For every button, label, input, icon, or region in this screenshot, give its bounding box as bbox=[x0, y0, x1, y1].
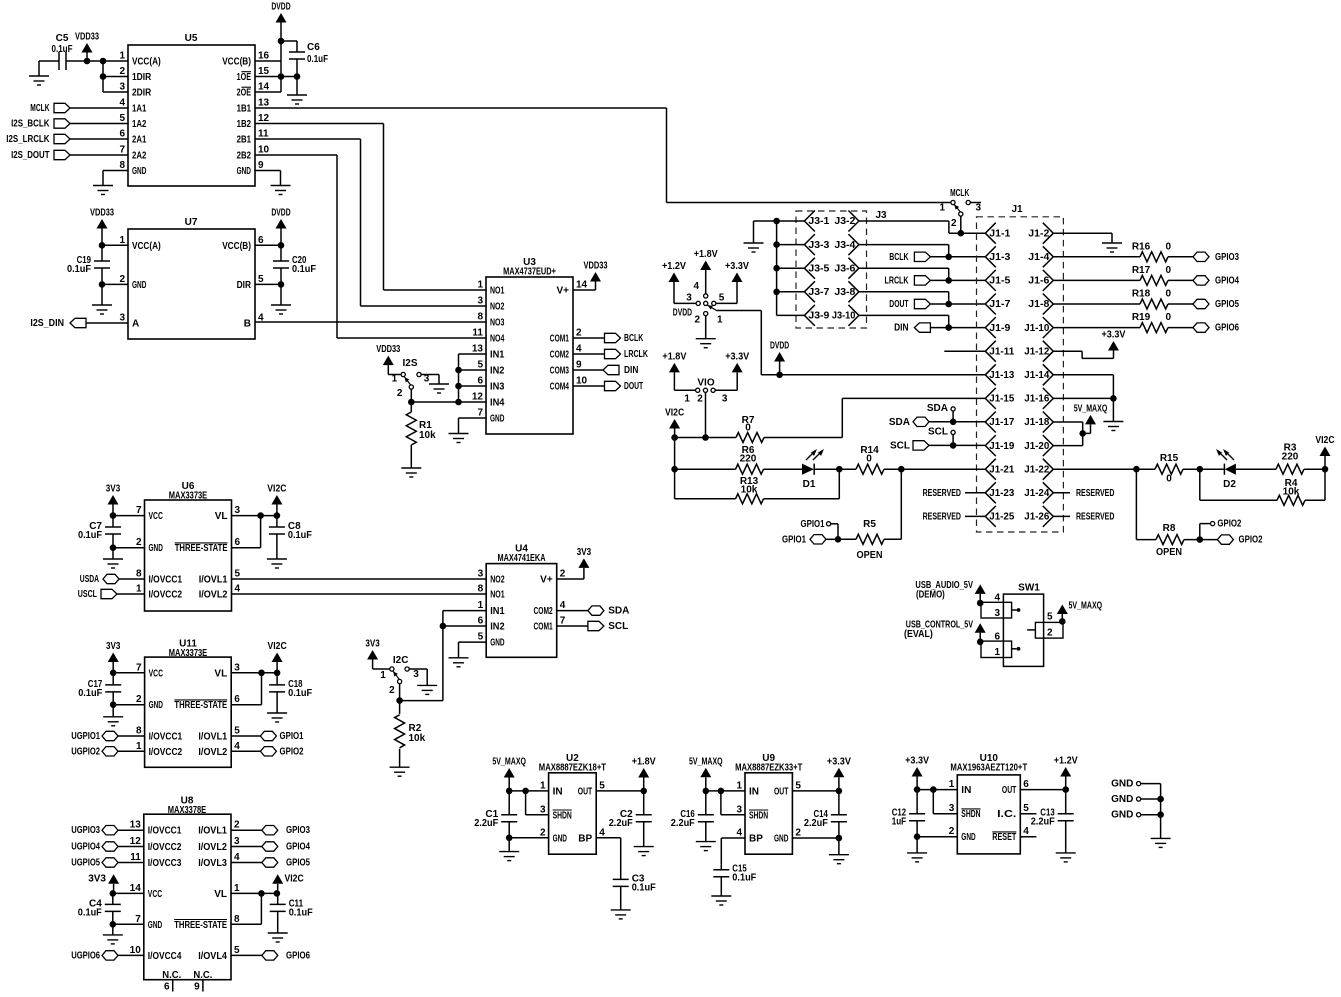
wire U8 VCC bbox=[113, 892, 144, 894]
svg-text:SHDN: SHDN bbox=[553, 810, 572, 821]
wire I2C pin3 stub bbox=[409, 669, 427, 685]
svg-text:10k: 10k bbox=[409, 733, 426, 744]
switch I2C lever bbox=[393, 671, 399, 679]
switch VIO pin3 bbox=[711, 388, 728, 404]
svg-text:J1-10: J1-10 bbox=[1024, 323, 1049, 334]
svg-text:3: 3 bbox=[119, 313, 125, 324]
node dot IN4 bbox=[455, 399, 462, 406]
svg-text:+1.8V: +1.8V bbox=[694, 249, 718, 260]
wire DVDD to J1-13 bbox=[780, 374, 986, 376]
flag UGPIO2 bidirectional bbox=[71, 746, 144, 757]
svg-text:J1-6: J1-6 bbox=[1028, 276, 1049, 287]
svg-text:NO2: NO2 bbox=[490, 575, 505, 586]
resistor R13 10k bbox=[736, 476, 764, 504]
node dot VI2C right bbox=[1322, 466, 1329, 473]
node dot U6 VI2C bbox=[274, 512, 281, 519]
node dot SDA bbox=[950, 419, 957, 426]
svg-text:4: 4 bbox=[234, 741, 240, 752]
flag BCLK output bbox=[889, 252, 930, 263]
svg-text:BCLK: BCLK bbox=[624, 333, 644, 344]
svg-text:I2S: I2S bbox=[402, 358, 417, 369]
svg-text:10: 10 bbox=[576, 376, 588, 387]
wire node to 5V_MAXQ arrow bbox=[1083, 432, 1091, 434]
svg-text:13: 13 bbox=[472, 344, 484, 355]
svg-text:NO1: NO1 bbox=[490, 590, 505, 601]
node dot U8 VI2C bbox=[274, 890, 281, 897]
wire U9 IN bbox=[706, 790, 745, 792]
ground at C20 bbox=[271, 305, 291, 314]
svg-text:VDD33: VDD33 bbox=[376, 344, 400, 355]
svg-text:VI2C: VI2C bbox=[268, 641, 287, 652]
power DVDD at J1-13 wire bbox=[770, 341, 789, 375]
svg-text:4: 4 bbox=[560, 600, 566, 611]
svg-text:3V3: 3V3 bbox=[88, 874, 106, 885]
switch I2C label bbox=[393, 655, 409, 666]
power +3.3V at J1-12 bbox=[1102, 330, 1126, 359]
node dot U9 GND/C14 bbox=[836, 835, 843, 842]
svg-text:RESERVED: RESERVED bbox=[923, 488, 961, 499]
svg-text:1: 1 bbox=[119, 51, 125, 62]
power VDD33 at U3 V+ bbox=[584, 261, 608, 291]
wire U3 COM2 to LRCLK bbox=[573, 353, 605, 355]
svg-text:VCC: VCC bbox=[148, 889, 162, 900]
svg-text:3: 3 bbox=[976, 203, 982, 214]
capacitor C4 0.1uF bbox=[78, 893, 121, 935]
wire D2 to R3 bbox=[1236, 468, 1276, 470]
ground at C17 bbox=[103, 717, 123, 726]
svg-text:GPIO2: GPIO2 bbox=[1239, 535, 1263, 546]
svg-text:SHDN: SHDN bbox=[961, 809, 980, 820]
switch I2S pin2 bbox=[397, 385, 413, 399]
svg-text:U5: U5 bbox=[185, 33, 198, 44]
flag SDA bidirectional bbox=[889, 417, 929, 428]
power 3V3 at I2C switch bbox=[365, 639, 380, 670]
wire D1 to R14 bbox=[814, 468, 856, 470]
wire U3 GND pin7 bbox=[459, 418, 487, 434]
svg-text:11: 11 bbox=[472, 328, 483, 339]
wire U6 I/OVL1 to U4 NO2 bbox=[232, 578, 487, 580]
svg-text:6: 6 bbox=[477, 376, 483, 387]
svg-text:I/OVCC2: I/OVCC2 bbox=[149, 590, 183, 601]
svg-text:USCL: USCL bbox=[78, 589, 97, 600]
svg-text:5V_MAXQ: 5V_MAXQ bbox=[1069, 601, 1103, 612]
svg-text:GPIO6: GPIO6 bbox=[286, 950, 310, 961]
node dot U7 pin2 GND bbox=[99, 281, 106, 288]
svg-text:GND: GND bbox=[237, 166, 251, 177]
resistor R7 0 bbox=[736, 415, 764, 443]
node dot DVDD/C6 bbox=[278, 38, 285, 45]
svg-text:MAX8887EZK33+T: MAX8887EZK33+T bbox=[735, 763, 802, 774]
connector pin J1-13 bbox=[985, 364, 1014, 385]
power 5V_MAXQ at SW1 bbox=[1057, 601, 1102, 622]
wire U9 OUT bbox=[792, 790, 839, 792]
wire U10 OUT bbox=[1020, 789, 1065, 791]
node dot U2 GND/C1 bbox=[506, 835, 513, 842]
svg-text:J1: J1 bbox=[1011, 204, 1023, 215]
ground at C18 bbox=[267, 713, 287, 722]
ground at C13 bbox=[1056, 853, 1076, 862]
node dot U2 IN a bbox=[506, 788, 513, 795]
node dot SW1 control bbox=[977, 639, 984, 646]
svg-text:MAX8887EZK18+T: MAX8887EZK18+T bbox=[539, 763, 606, 774]
svg-text:IN: IN bbox=[749, 786, 759, 797]
wire R13 row bbox=[675, 498, 736, 500]
svg-text:J1-18: J1-18 bbox=[1024, 417, 1049, 428]
wire R4 branch bbox=[1200, 469, 1277, 500]
wire VIO pin2 down to R7 node bbox=[705, 392, 707, 437]
svg-text:2: 2 bbox=[951, 218, 957, 229]
wire U10 RESET stub bbox=[1020, 836, 1036, 838]
switch I2C pin2 bbox=[389, 679, 402, 696]
switch MCLK pin1 bbox=[939, 200, 955, 213]
svg-text:3V3: 3V3 bbox=[106, 641, 121, 652]
node dot VI2C/R6 bbox=[671, 466, 678, 473]
wire I2C pin2 to R2 bbox=[399, 684, 401, 701]
wire I2S_DOUT to U5 pin7 2A2 bbox=[70, 154, 128, 156]
wire GPIO1 hexagon bbox=[826, 538, 838, 540]
flag DOUT output bbox=[889, 299, 930, 310]
svg-text:9: 9 bbox=[576, 360, 582, 371]
node dot GND header 2 bbox=[1157, 796, 1164, 803]
svg-text:UGPIO1: UGPIO1 bbox=[71, 731, 100, 742]
connector pin J1-6 bbox=[1028, 270, 1053, 291]
svg-text:4: 4 bbox=[599, 827, 605, 838]
svg-text:SW1: SW1 bbox=[1018, 583, 1040, 594]
svg-text:GND: GND bbox=[1111, 794, 1133, 805]
connector pin J3-4 bbox=[834, 234, 859, 255]
power 5V_MAXQ at U9 bbox=[689, 756, 723, 791]
power VI2C at R7 row bbox=[665, 408, 684, 438]
switch I2S pin1 bbox=[392, 372, 406, 384]
svg-text:2: 2 bbox=[540, 827, 546, 838]
svg-text:VCC: VCC bbox=[149, 511, 163, 522]
power 3V3 at U8 bbox=[88, 874, 119, 894]
wire U8 GND bbox=[113, 923, 144, 925]
svg-text:B: B bbox=[244, 319, 251, 330]
svg-text:DVDD: DVDD bbox=[271, 208, 290, 219]
wire J1-22 to R15 bbox=[1053, 468, 1155, 470]
svg-text:1: 1 bbox=[136, 584, 142, 595]
power USB_AUDIO_5V (DEMO) bbox=[915, 580, 985, 603]
svg-text:5: 5 bbox=[1023, 803, 1029, 814]
svg-text:IN1: IN1 bbox=[490, 350, 505, 361]
node dot VDD33/pin1 bbox=[84, 58, 91, 65]
wire U7 pin2 GND bbox=[102, 283, 128, 285]
switch MCLK pin2 bbox=[951, 212, 963, 229]
svg-text:11: 11 bbox=[130, 852, 141, 863]
svg-text:DVDD: DVDD bbox=[673, 308, 692, 319]
svg-text:0.1uF: 0.1uF bbox=[288, 688, 312, 699]
svg-text:BP: BP bbox=[749, 834, 763, 845]
svg-text:0: 0 bbox=[1166, 289, 1172, 300]
svg-text:1: 1 bbox=[136, 741, 142, 752]
node dot U6 GND bbox=[110, 544, 117, 551]
svg-text:2: 2 bbox=[697, 393, 703, 404]
svg-text:0: 0 bbox=[1166, 474, 1172, 485]
wire I2S pin3 stub to ground bbox=[421, 375, 439, 385]
wire U3 COM4 to DOUT bbox=[573, 385, 605, 387]
svg-text:I/OVCC3: I/OVCC3 bbox=[148, 858, 182, 869]
IC U10 MAX1963AEZT120+T box bbox=[950, 753, 1027, 854]
wire U5 2B2 to U3 NO4 bbox=[255, 155, 486, 338]
wire U11 VCC bbox=[113, 672, 144, 674]
SW1 section pins 6-1 bbox=[981, 632, 1020, 659]
svg-text:1uF: 1uF bbox=[892, 817, 906, 828]
svg-text:8: 8 bbox=[478, 584, 484, 595]
node dot GPIO2 bbox=[1197, 536, 1204, 543]
wire U7 pin6 bbox=[255, 244, 281, 246]
svg-text:0: 0 bbox=[1166, 312, 1172, 323]
svg-text:10k: 10k bbox=[1283, 487, 1300, 498]
node dot R15/R4 bbox=[1197, 466, 1204, 473]
svg-text:0.1uF: 0.1uF bbox=[292, 264, 316, 275]
U8 right pins bbox=[174, 820, 240, 962]
svg-text:UGPIO6: UGPIO6 bbox=[71, 950, 100, 961]
switch VIO pin1 bbox=[684, 388, 699, 404]
svg-text:VL: VL bbox=[214, 668, 227, 679]
svg-text:3: 3 bbox=[234, 836, 240, 847]
node dot U10 GND/C12 bbox=[914, 833, 921, 840]
flag GPIO1 output bbox=[231, 731, 304, 742]
svg-text:VI2C: VI2C bbox=[285, 874, 304, 885]
wire R5 node down bbox=[884, 469, 901, 539]
svg-text:D2: D2 bbox=[1223, 479, 1236, 490]
IC U6 MAX3373E box bbox=[145, 481, 232, 611]
node dot SW1 output bbox=[1059, 618, 1066, 625]
svg-text:BP: BP bbox=[578, 833, 592, 844]
wire U4 IN1 bbox=[443, 611, 486, 701]
wire +3.3V to switch pin5 bbox=[716, 302, 737, 304]
switch SW1 outer box bbox=[1003, 583, 1043, 667]
svg-text:8: 8 bbox=[234, 914, 240, 925]
power VI2C at U6 bbox=[267, 484, 286, 516]
switch MCLK lever bbox=[954, 205, 960, 212]
U2 right pins bbox=[578, 780, 605, 844]
power 3V3 at U11 bbox=[106, 641, 121, 673]
wire C5 to ground bbox=[39, 60, 59, 62]
resistor R3 220 bbox=[1276, 443, 1304, 475]
flag UGPIO5 bidirectional bbox=[71, 858, 144, 869]
IC U5 74LVC-type level translator box bbox=[128, 33, 255, 186]
svg-text:1: 1 bbox=[540, 780, 546, 791]
node dot I2C/R2/IN2 bbox=[396, 697, 403, 704]
switch DVDD pin2 bbox=[694, 312, 707, 326]
svg-text:J1-12: J1-12 bbox=[1024, 346, 1049, 357]
switch DVDD pin3 bbox=[686, 293, 700, 306]
svg-text:I/OVCC2: I/OVCC2 bbox=[148, 842, 182, 853]
svg-text:3: 3 bbox=[722, 393, 728, 404]
svg-text:+1.2V: +1.2V bbox=[662, 261, 686, 272]
svg-text:3: 3 bbox=[477, 296, 483, 307]
connector pin J1-12 bbox=[1024, 341, 1053, 362]
svg-text:I2S_DOUT: I2S_DOUT bbox=[11, 150, 49, 161]
connector pin J3-2 bbox=[834, 211, 859, 232]
svg-text:GPIO6: GPIO6 bbox=[1215, 323, 1239, 334]
svg-text:C5: C5 bbox=[56, 33, 69, 44]
switch DVDD center bbox=[704, 301, 708, 305]
svg-text:DIN: DIN bbox=[624, 365, 638, 376]
svg-text:UGPIO4: UGPIO4 bbox=[71, 842, 100, 853]
flag LRCLK output bbox=[605, 349, 649, 360]
node dot pin15 rail bbox=[278, 73, 285, 80]
wire U5 pin16 VCC(B) bbox=[255, 60, 281, 62]
svg-text:7: 7 bbox=[136, 505, 142, 516]
capacitor C2 2.2uF bbox=[609, 791, 652, 847]
svg-text:I2S_LRCLK: I2S_LRCLK bbox=[6, 134, 50, 145]
svg-text:VCC(A): VCC(A) bbox=[132, 241, 161, 252]
svg-text:6: 6 bbox=[164, 982, 170, 993]
svg-text:VCC(B): VCC(B) bbox=[222, 57, 251, 68]
svg-text:1A2: 1A2 bbox=[132, 119, 147, 130]
svg-text:0.1uF: 0.1uF bbox=[288, 530, 312, 541]
svg-text:J3-1: J3-1 bbox=[808, 216, 829, 227]
svg-text:0.1uF: 0.1uF bbox=[67, 264, 91, 275]
wire J3-2 to J1-1 bbox=[859, 221, 985, 233]
resistor R5 OPEN bbox=[856, 519, 884, 561]
svg-text:IN3: IN3 bbox=[490, 382, 505, 393]
svg-text:1: 1 bbox=[736, 780, 742, 791]
svg-text:1A1: 1A1 bbox=[132, 104, 147, 115]
svg-text:GPIO2: GPIO2 bbox=[1217, 519, 1241, 530]
connector pin J1-9 bbox=[985, 317, 1010, 338]
wire I2C node to U4 IN chain bbox=[400, 700, 443, 702]
node dot R14/R5 bbox=[898, 466, 905, 473]
svg-text:1OE: 1OE bbox=[237, 72, 252, 83]
wire U5 2B1 to U3 NO2 bbox=[255, 139, 486, 306]
capacitor C16 2.2uF bbox=[671, 791, 714, 842]
ground at DVDD switch bbox=[696, 339, 716, 348]
power +1.2V at U10 OUT bbox=[1054, 756, 1078, 790]
power VDD33 at I2S switch bbox=[376, 344, 400, 374]
label RESERVED J1-24 bbox=[1053, 488, 1114, 499]
node dot U9 IN b bbox=[718, 788, 725, 795]
svg-text:J1-11: J1-11 bbox=[989, 346, 1014, 357]
svg-text:VI2C: VI2C bbox=[665, 408, 684, 419]
svg-text:SHDN: SHDN bbox=[749, 810, 768, 821]
svg-text:COM1: COM1 bbox=[534, 622, 553, 633]
power VI2C at U8 bbox=[272, 874, 304, 894]
node dot 1DIR bbox=[100, 73, 107, 80]
svg-text:GPIO3: GPIO3 bbox=[286, 825, 310, 836]
svg-text:10: 10 bbox=[130, 945, 142, 956]
wire J1 to R18 bbox=[1053, 303, 1140, 305]
wire U3 V+ pin14 bbox=[573, 289, 596, 291]
svg-text:1: 1 bbox=[119, 235, 125, 246]
svg-text:J1-24: J1-24 bbox=[1024, 488, 1049, 499]
wire U6 VCC bbox=[113, 515, 145, 517]
svg-text:+3.3V: +3.3V bbox=[905, 756, 929, 767]
testpoint GND 1 bbox=[1111, 779, 1160, 790]
svg-text:GND: GND bbox=[490, 638, 504, 649]
svg-text:16: 16 bbox=[258, 51, 270, 62]
power USB_CONTROL_5V (EVAL) bbox=[904, 619, 986, 642]
svg-text:IN: IN bbox=[961, 785, 971, 796]
ground at R1 bbox=[401, 468, 421, 477]
node dot DVDD J1-13 bbox=[776, 372, 783, 379]
capacitor C3 0.1uF bbox=[613, 873, 656, 910]
U8 N.C. pin9 bbox=[193, 970, 212, 993]
wire 3V3 to I2C pin1 bbox=[373, 668, 390, 670]
svg-text:13: 13 bbox=[258, 98, 270, 109]
U5 left pin names and numbers 1-8 bbox=[119, 51, 160, 178]
wire U8 VL to VI2C bbox=[231, 892, 278, 894]
svg-text:1: 1 bbox=[939, 203, 945, 214]
svg-text:2B1: 2B1 bbox=[237, 135, 252, 146]
svg-text:RESET: RESET bbox=[992, 832, 1016, 843]
connector pin J1-25 bbox=[985, 506, 1014, 527]
svg-text:6: 6 bbox=[994, 632, 1000, 643]
svg-text:11: 11 bbox=[258, 129, 269, 140]
wire U9 BP to C15 bbox=[721, 838, 745, 870]
svg-text:2.2uF: 2.2uF bbox=[1031, 817, 1055, 828]
wire +1.8V to VIO pin1 bbox=[674, 389, 695, 391]
svg-text:I2C: I2C bbox=[393, 655, 409, 666]
wire U7 pin5 DIR bbox=[255, 283, 281, 285]
svg-text:+3.3V: +3.3V bbox=[725, 351, 749, 362]
svg-text:BCLK: BCLK bbox=[889, 252, 909, 263]
svg-text:A: A bbox=[132, 319, 139, 330]
svg-text:I/OVL2: I/OVL2 bbox=[198, 747, 227, 758]
svg-text:7: 7 bbox=[560, 616, 566, 627]
resistor R2 10k bbox=[395, 701, 426, 768]
svg-text:IN4: IN4 bbox=[490, 398, 505, 409]
power 3V3 at U6 bbox=[106, 484, 121, 516]
connector pin J3-1 bbox=[804, 211, 829, 232]
svg-text:DVDD: DVDD bbox=[770, 341, 789, 352]
capacitor C19 0.1uF bbox=[67, 245, 110, 305]
svg-text:3: 3 bbox=[540, 804, 546, 815]
connector pin J3-10 bbox=[832, 305, 859, 326]
power +3.3V at U10 bbox=[905, 756, 929, 790]
connector pin J1-21 bbox=[985, 459, 1014, 480]
flag GPIO1 bidirectional bbox=[782, 534, 826, 545]
svg-text:4: 4 bbox=[994, 593, 1000, 604]
svg-text:J1-19: J1-19 bbox=[989, 441, 1014, 452]
power +3.3V at DVDD switch bbox=[725, 261, 749, 303]
node dot U10 IN b bbox=[930, 786, 937, 793]
wire J1-12 to +3.3V bbox=[1053, 351, 1113, 358]
ground at GND header bbox=[1151, 838, 1171, 847]
svg-text:UGPIO5: UGPIO5 bbox=[71, 858, 100, 869]
svg-text:I/OVCC2: I/OVCC2 bbox=[149, 747, 183, 758]
svg-text:+1.2V: +1.2V bbox=[1054, 756, 1078, 767]
svg-text:4: 4 bbox=[119, 98, 125, 109]
LED D2 bbox=[1216, 449, 1236, 490]
flag GPIO2 bidirectional bbox=[1217, 535, 1262, 546]
wire R8 branch bbox=[1136, 469, 1156, 539]
node dot pin15 C6 bbox=[294, 73, 301, 80]
svg-text:9: 9 bbox=[194, 982, 200, 993]
ground at C6 bbox=[287, 95, 307, 104]
wire J1-18 to 5V_MAXQ bbox=[1053, 422, 1082, 446]
ground at C2 bbox=[634, 847, 654, 856]
switch DVDD pin4 bbox=[693, 281, 707, 298]
node dot MCLK/J1-1 bbox=[958, 230, 965, 237]
flag UGPIO4 bidirectional bbox=[71, 842, 144, 853]
wire +3.3V to VIO pin3 bbox=[715, 389, 737, 391]
node dot D1/R13 bbox=[836, 466, 843, 473]
flag BCLK output bbox=[605, 333, 644, 344]
ground at C16 bbox=[696, 842, 716, 851]
wire U2 IN bbox=[509, 790, 548, 792]
connector pin J1-11 bbox=[985, 341, 1014, 362]
wire U2 BP to C3 bbox=[596, 838, 621, 880]
svg-text:3V3: 3V3 bbox=[577, 547, 592, 558]
svg-text:DOUT: DOUT bbox=[624, 381, 643, 392]
svg-text:3: 3 bbox=[119, 82, 125, 93]
svg-text:7: 7 bbox=[477, 408, 483, 419]
switch DVDD pin1 lever bbox=[708, 305, 724, 325]
